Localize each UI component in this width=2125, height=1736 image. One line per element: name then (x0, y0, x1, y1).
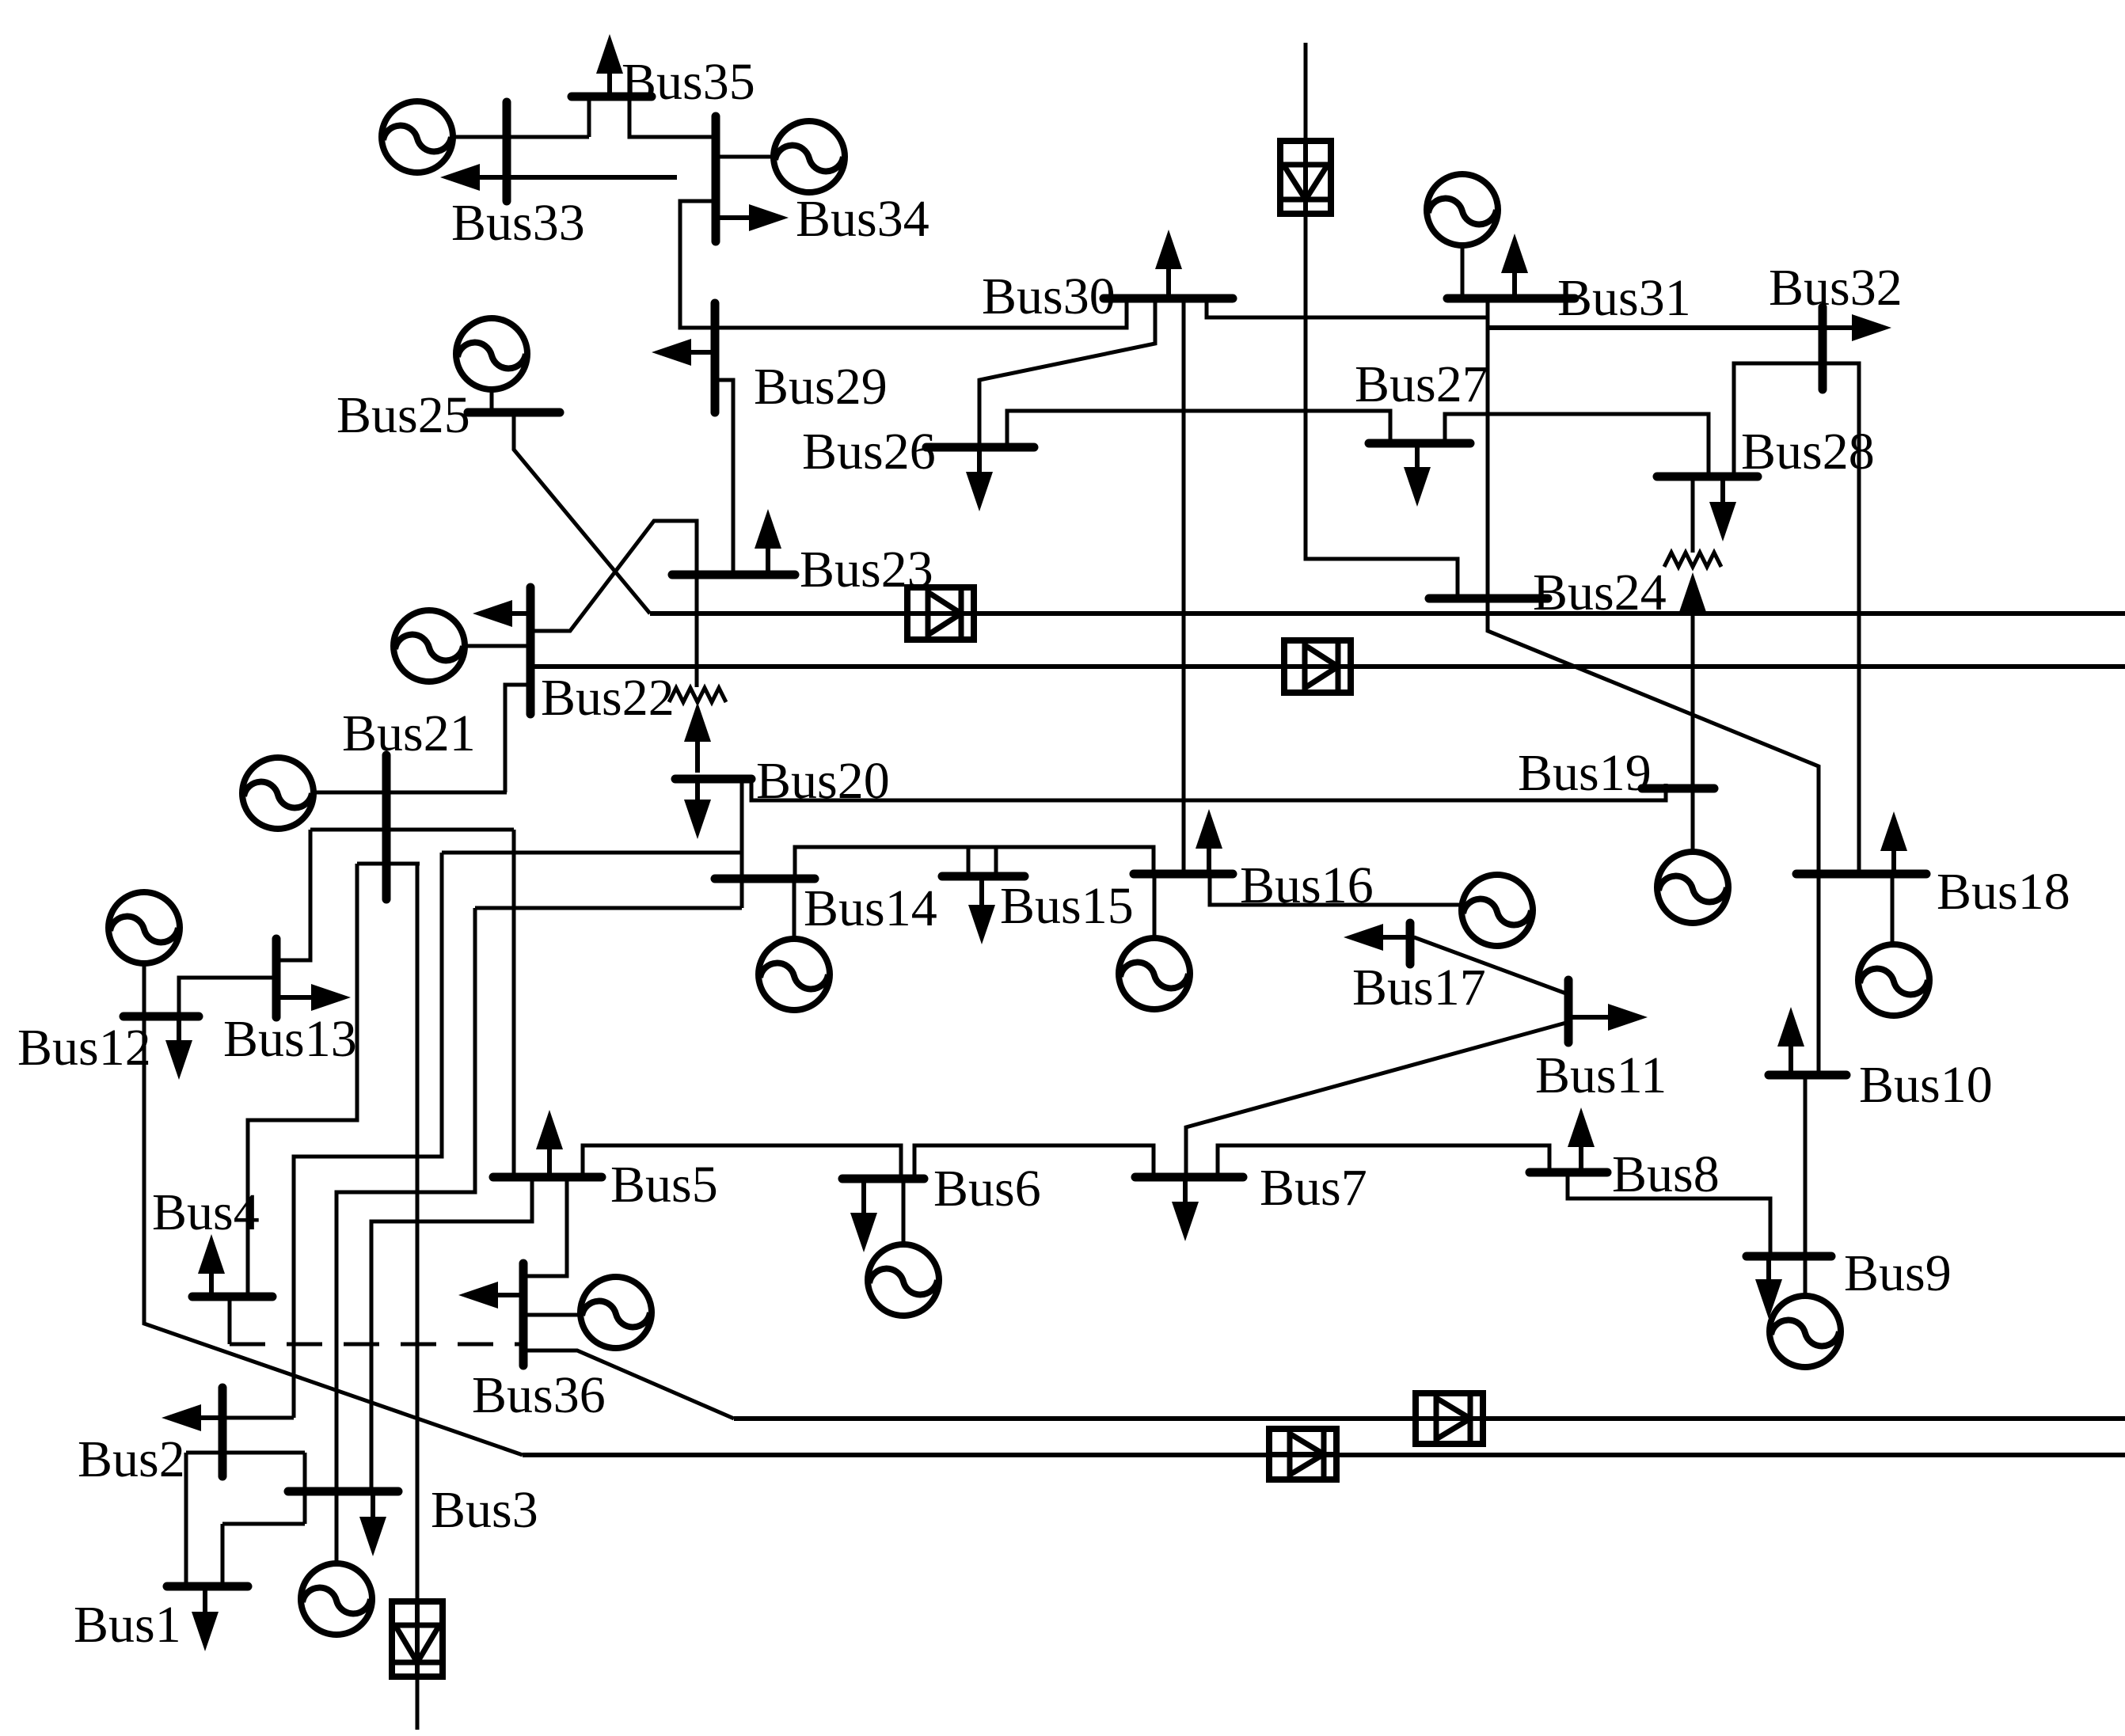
arrow Bus26 load down (966, 472, 993, 511)
wire Bus31 to Bus24 vertical (1486, 298, 1490, 598)
wire Bus14 under-jog to x600 (475, 906, 742, 910)
bus Bus6 bar (842, 1175, 924, 1183)
wire Bus31 generator stub (1461, 244, 1465, 298)
svg-text:Bus32: Bus32 (1769, 259, 1903, 317)
wire Bus21 horizontal y1048 (310, 828, 514, 832)
bus Bus10 bar (1769, 1071, 1846, 1080)
svg-text:Bus12: Bus12 (17, 1019, 151, 1077)
bus Bus1 bar (167, 1582, 248, 1591)
wire Bus25 diagonal to line L1 (514, 412, 650, 613)
svg-text:Bus34: Bus34 (796, 190, 929, 248)
arrow Bus28 load down (1709, 502, 1736, 541)
wire Bus1 left riser (184, 1453, 188, 1586)
wire Bus2-Bus3-Bus1 upper (186, 1451, 305, 1455)
wire Bus3 drop (303, 1453, 307, 1524)
wire Bus2 to riser x371 (222, 1416, 294, 1420)
svg-text:Bus26: Bus26 (802, 423, 936, 481)
wire Bus36 generator line (523, 1313, 582, 1317)
generator G22 at Bus22 (393, 610, 465, 682)
wire Bus12 down + diagonal to line L4 (144, 1016, 523, 1455)
bus Bus15 bar (942, 872, 1024, 881)
wire Bus35 left stub (587, 97, 591, 137)
bus Bus14 bar (715, 875, 815, 883)
arrow Bus16 injection up (1196, 809, 1222, 849)
wire+arrow Bus22 export left (473, 600, 512, 627)
wire Bus28-Bus32-Bus18 path (1734, 363, 1859, 874)
svg-text:Bus11: Bus11 (1535, 1047, 1667, 1104)
generator G12 at Bus12 (108, 892, 180, 963)
svg-text:Bus14: Bus14 (804, 879, 937, 937)
arrow Bus1 load down (192, 1612, 219, 1651)
generator G21 at Bus21 (242, 758, 314, 829)
arrow Bus10 injection up (1777, 1007, 1804, 1047)
generator G25 at Bus25 (456, 318, 527, 389)
bus Bus13 bar (272, 939, 281, 1017)
svg-text:Bus33: Bus33 (451, 194, 585, 252)
wire Bus25 generator stub (490, 388, 494, 412)
svg-text:Bus3: Bus3 (431, 1481, 538, 1539)
bus Bus17 bar (1406, 923, 1415, 964)
wire Bus34 down to Bus30 (via y414) (680, 201, 1127, 328)
wire+arrow Bus36 export left (458, 1282, 498, 1309)
generator G34 at Bus34 (774, 121, 845, 192)
wire Bus36 diagonal to line L3 (523, 1350, 734, 1419)
wire Bus1 jog horizontal (222, 1522, 305, 1526)
wire Bus5 to Bus6 (583, 1145, 901, 1179)
wire Bus24 diagonal to Bus10 (1488, 598, 1819, 1075)
bus Bus24 bar (1429, 594, 1548, 603)
bus Bus23 bar (672, 571, 795, 579)
svg-text:Bus30: Bus30 (982, 268, 1116, 325)
wire Bus27 to Bus28 (1445, 414, 1709, 477)
wire Bus28 down to squiggle (1691, 477, 1695, 553)
wire Bus29 to Bus23 (715, 380, 733, 575)
bus Bus11 bar (1564, 980, 1573, 1043)
HVDC converter C5 on line L4 (1269, 1429, 1336, 1480)
wire+arrow Bus17 export left (1344, 924, 1383, 951)
wire Bus6 generator stub (902, 1179, 906, 1246)
svg-text:Bus21: Bus21 (342, 705, 476, 762)
wire Bus30 to Bus31 link (1207, 298, 1488, 317)
svg-text:Bus10: Bus10 (1859, 1056, 1993, 1114)
wire below bottom converter C3 (416, 1676, 420, 1730)
wire Bus23 down to squiggle (695, 575, 699, 687)
bus Bus16 bar (1134, 870, 1233, 879)
generator G16 at Bus16 (1119, 938, 1190, 1009)
svg-text:Bus22: Bus22 (541, 669, 675, 727)
arrow Bus7 load down (1172, 1202, 1199, 1241)
arrow Bus3 load down (359, 1517, 386, 1556)
wire Bus21 horizontal y1091 (357, 862, 420, 866)
wire Bus16 to G17 generator (1210, 876, 1464, 905)
svg-text:Bus35: Bus35 (622, 53, 755, 111)
svg-text:Bus25: Bus25 (336, 386, 470, 444)
HVDC line L3 from Bus36 to right edge (734, 1416, 2125, 1421)
wire+arrow Bus11 export right (1608, 1004, 1648, 1031)
wire Bus21 to Bus5 (512, 830, 516, 1177)
wire Bus12 generator stub (143, 962, 146, 1016)
wire Bus10-Bus9-generator vertical (1804, 1075, 1808, 1297)
bus Bus5 bar (493, 1173, 602, 1182)
wire Bus8 to Bus9 (1568, 1172, 1770, 1256)
generator G36 at Bus36 (580, 1277, 652, 1348)
svg-text:Bus8: Bus8 (1612, 1145, 1720, 1203)
wire Bus14 area to x558 (442, 851, 742, 855)
generator G14 at Bus14 (758, 939, 830, 1010)
bus Bus25 bar (468, 408, 560, 417)
wire Bus22 to Bus23 (X crossing) (530, 521, 697, 631)
wire+arrow Bus34 export left past Bus33 (440, 164, 480, 191)
arrow Bus4 injection up (198, 1234, 225, 1274)
arrow Bus35 injection up (596, 34, 623, 74)
wire Bus15 left stub (967, 847, 971, 876)
wire x600 to Bus3 (336, 908, 475, 1491)
wire Bus12 to Bus13 (179, 978, 276, 1016)
arrow Bus8 injection up (1568, 1107, 1595, 1147)
wire Bus30 to Bus26 diagonal (979, 298, 1155, 447)
wire+arrow Bus34 export right (749, 204, 789, 231)
wire Bus20 to Bus19 (751, 779, 1666, 800)
wire+arrow Bus2 export left (162, 1404, 201, 1431)
generator G9 at Bus9 (1770, 1296, 1841, 1367)
wire Bus1 right riser (221, 1524, 225, 1586)
HVDC converter C3 bottom (vertical, from Bus21) (392, 1601, 443, 1677)
generator G31 at Bus31 (1427, 174, 1498, 245)
svg-text:Bus2: Bus2 (78, 1430, 185, 1488)
generator G18 at Bus18 (1858, 944, 1929, 1016)
arrow Bus5 injection up (536, 1110, 563, 1149)
generator G17 near Bus17 (1462, 875, 1533, 946)
bus Bus27 bar (1369, 439, 1470, 448)
generator G19 below Bus19 (1657, 852, 1728, 923)
wire Bus26 to Bus27 (1007, 411, 1390, 447)
HVDC converter C1 on line L1 (907, 587, 974, 640)
bus Bus2 bar (219, 1388, 227, 1476)
svg-text:Bus4: Bus4 (152, 1183, 260, 1241)
bus Bus22 bar (526, 587, 535, 714)
dashed wire Bus4 to Bus36 (230, 1343, 521, 1347)
bus Bus19 bar (1642, 784, 1714, 793)
wire Bus19 to generator (1691, 788, 1695, 853)
svg-text:Bus9: Bus9 (1844, 1244, 1952, 1302)
wire Bus14 generator stub (793, 879, 796, 939)
svg-text:Bus19: Bus19 (1518, 744, 1652, 802)
wire+arrow Bus13 export right (311, 984, 351, 1011)
wire Bus3 generator stub (335, 1491, 339, 1565)
wire Bus21 to bottom converter C3 (416, 864, 420, 1601)
wire Bus5 to Bus3 (371, 1177, 532, 1491)
bus Bus9 bar (1747, 1252, 1831, 1261)
bus Bus31 bar (1447, 294, 1575, 303)
wire Bus14 to Bus15 to Bus16 link (795, 847, 1154, 879)
svg-text:Bus36: Bus36 (472, 1366, 606, 1424)
bus Bus35 bar (572, 93, 652, 101)
bus Bus21 bar (382, 755, 391, 899)
bus Bus20 bar (675, 775, 751, 784)
svg-text:Bus5: Bus5 (610, 1156, 718, 1214)
double arrow Bus22-Bus20 upper head (684, 702, 711, 742)
generator G33 at Bus33 (382, 101, 453, 173)
arrow Bus24 link up head (1679, 572, 1706, 612)
svg-text:Bus24: Bus24 (1533, 564, 1667, 621)
wire Bus33 generator line (451, 135, 589, 139)
arrow Bus9 load down (1755, 1279, 1782, 1319)
svg-text:Bus7: Bus7 (1260, 1159, 1367, 1217)
svg-text:Bus28: Bus28 (1741, 423, 1875, 481)
wire Bus15 right stub (994, 847, 998, 876)
HVDC line L4 from Bus12 diagonal to right edge (523, 1453, 2125, 1457)
svg-text:Bus31: Bus31 (1557, 269, 1691, 327)
svg-text:Bus27: Bus27 (1355, 355, 1488, 413)
wire Bus4 stub to dashed (228, 1300, 232, 1344)
bus Bus7 bar (1135, 1173, 1243, 1182)
arrow Bus15 load down (968, 905, 995, 944)
wire Bus17 to Bus11 diagonal (1414, 937, 1566, 993)
wire DC top converter upper (1304, 43, 1308, 141)
squiggle at Bus24 link (1664, 553, 1721, 567)
bus Bus30 bar (1104, 294, 1233, 303)
bus Bus34 bar (712, 116, 720, 241)
svg-text:Bus15: Bus15 (1000, 877, 1134, 935)
generator G3 at Bus3 (301, 1563, 372, 1635)
svg-text:Bus20: Bus20 (756, 752, 890, 810)
svg-text:Bus23: Bus23 (800, 541, 933, 598)
bus Bus33 bar (503, 102, 511, 201)
svg-text:Bus6: Bus6 (933, 1160, 1041, 1217)
bus Bus32 bar (1819, 307, 1827, 389)
bus Bus12 bar (124, 1012, 199, 1021)
wire Bus16 generator stub (1153, 874, 1157, 938)
wire Bus22 to Bus21 jog (505, 685, 530, 792)
HVDC converter C2 on line L2 (1284, 640, 1351, 693)
arrow Bus27 load down (1404, 467, 1431, 507)
arrow Bus23 injection up (755, 509, 781, 549)
wire Bus24-link down to Bus19 (1691, 610, 1695, 788)
svg-text:Bus17: Bus17 (1352, 959, 1486, 1016)
wire Bus34 generator line (716, 155, 775, 159)
bus Bus8 bar (1530, 1168, 1607, 1177)
wire Bus11 to Bus7 diagonal (1186, 1023, 1566, 1177)
bus Bus29 bar (711, 303, 720, 412)
bus Bus28 bar (1657, 473, 1758, 481)
bus Bus26 bar (926, 443, 1034, 452)
wire Bus21 generator line (312, 791, 507, 795)
svg-text:Bus13: Bus13 (223, 1010, 357, 1068)
svg-text:Bus1: Bus1 (74, 1596, 181, 1654)
svg-text:Bus18: Bus18 (1937, 863, 2070, 921)
HVDC line L1 from Bus25 to right edge (650, 611, 2125, 616)
wire Bus18 generator stub (1891, 874, 1895, 946)
svg-text:Bus16: Bus16 (1240, 857, 1374, 914)
svg-text:Bus29: Bus29 (754, 358, 888, 416)
double arrow Bus22-Bus20 lower head (684, 800, 711, 839)
wire Bus22 generator line (463, 644, 530, 648)
wire Bus21 to Bus4 (248, 864, 357, 1300)
wire+arrow Bus29 export left (652, 339, 691, 366)
wire DC top converter to Bus24 (1306, 214, 1458, 598)
bus Bus4 bar (192, 1293, 272, 1301)
wire x558 to Bus2 (294, 853, 442, 1418)
wire Bus20 down through Bus14 (740, 779, 744, 908)
wire+arrow Bus31 to Bus32 export (1852, 314, 1891, 341)
HVDC line L2 from Bus22 to right edge (530, 664, 2125, 669)
wire Bus35 to Bus34 (629, 97, 716, 137)
squiggle at Bus22 link (669, 688, 726, 702)
wire Bus21 to Bus13 (276, 830, 310, 960)
generator G6 at Bus6 (868, 1244, 939, 1316)
wire Bus30 down to Bus16 (1182, 298, 1186, 876)
arrow Bus30 injection up (1155, 230, 1182, 269)
HVDC converter C6 top (vertical, feeds Bus24) (1280, 141, 1331, 214)
HVDC converter C4 on line L3 (1416, 1393, 1483, 1444)
arrow Bus12 load down (165, 1040, 192, 1080)
wire Bus6 to Bus7 (914, 1145, 1154, 1179)
wire Bus7 to Bus8 (1218, 1145, 1549, 1177)
arrow Bus31 injection up (1501, 234, 1528, 273)
arrow Bus6 load down (850, 1213, 877, 1252)
bus Bus18 bar (1796, 870, 1926, 879)
arrow Bus18 injection up (1880, 811, 1907, 851)
wire Bus5 to Bus36 (526, 1177, 567, 1276)
bus Bus3 bar (288, 1487, 398, 1496)
bus Bus36 bar (519, 1263, 528, 1366)
